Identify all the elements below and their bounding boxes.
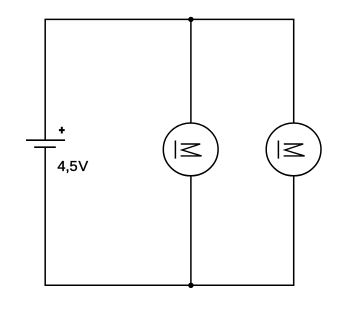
wire: left branch bottom + bottom rail + right branch lower segment	[45, 147, 294, 285]
wire: left branch top + top rail + right branch upper segment	[45, 19, 294, 140]
polarity label +	[59, 127, 65, 134]
motor M1 (middle branch)	[163, 123, 218, 176]
svg-text:4,5: 4,5	[57, 159, 77, 175]
svg-text:V: V	[78, 159, 88, 175]
wire: middle branch upper segment	[190, 19, 192, 123]
junction node bottom	[188, 283, 193, 288]
wire: middle branch lower segment	[190, 176, 192, 285]
junction node top	[188, 17, 193, 22]
battery cell: short negative plate	[34, 146, 56, 148]
battery cell: long positive plate	[26, 139, 65, 141]
motor M2 (right branch)	[266, 123, 321, 176]
